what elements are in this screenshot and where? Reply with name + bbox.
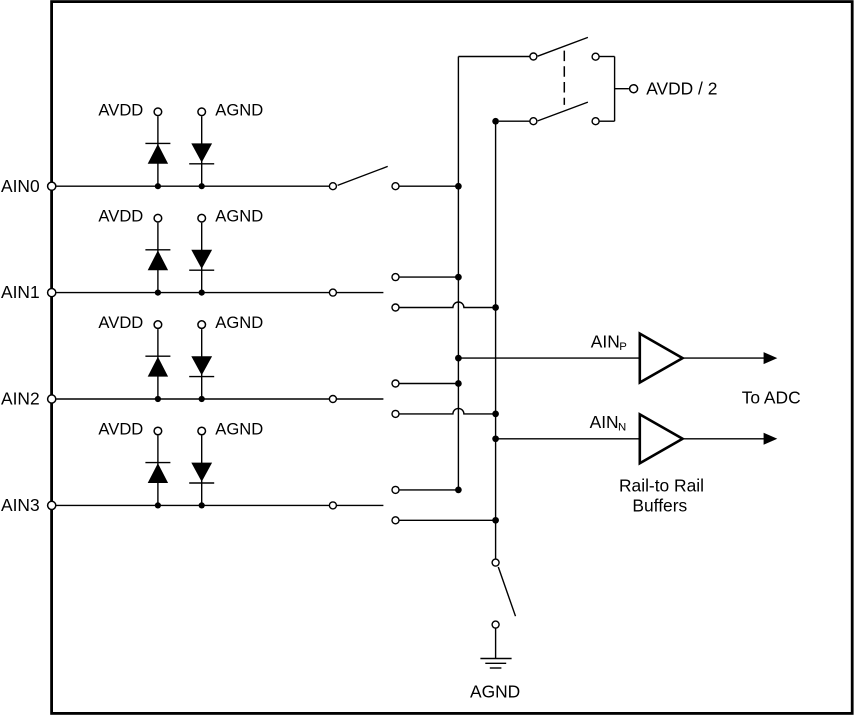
svg-text:P: P	[619, 341, 627, 353]
svg-text:AGND: AGND	[470, 681, 520, 701]
svg-text:AVDD / 2: AVDD / 2	[646, 78, 717, 98]
svg-text:AIN: AIN	[590, 412, 619, 432]
svg-text:AVDD: AVDD	[98, 313, 143, 332]
svg-text:AIN1: AIN1	[1, 282, 40, 302]
svg-text:Buffers: Buffers	[632, 495, 687, 515]
svg-text:AVDD: AVDD	[98, 420, 143, 439]
svg-text:AGND: AGND	[215, 207, 263, 226]
svg-text:AVDD: AVDD	[98, 207, 143, 226]
svg-text:AGND: AGND	[215, 100, 263, 119]
svg-text:AIN3: AIN3	[1, 495, 40, 515]
svg-text:N: N	[618, 422, 626, 434]
svg-text:AIN: AIN	[591, 331, 620, 351]
svg-text:AGND: AGND	[215, 420, 263, 439]
svg-text:AIN2: AIN2	[1, 389, 40, 409]
svg-text:AGND: AGND	[215, 313, 263, 332]
svg-text:AVDD: AVDD	[98, 100, 143, 119]
svg-text:To ADC: To ADC	[742, 388, 801, 408]
svg-text:AIN0: AIN0	[1, 176, 40, 196]
svg-text:Rail-to Rail: Rail-to Rail	[619, 475, 704, 495]
